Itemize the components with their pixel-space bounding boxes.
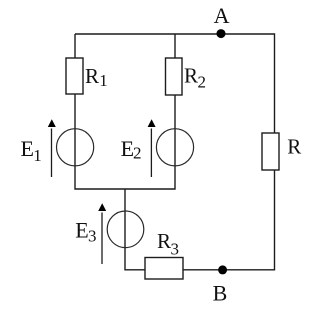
svg-text:R: R (287, 135, 301, 159)
svg-text:E: E (75, 218, 88, 243)
svg-text:3: 3 (88, 227, 97, 246)
svg-text:B: B (213, 280, 228, 305)
svg-text:3: 3 (171, 240, 180, 259)
svg-text:E: E (21, 136, 34, 161)
svg-text:2: 2 (198, 73, 207, 92)
svg-text:1: 1 (99, 71, 108, 90)
svg-text:A: A (214, 3, 230, 28)
svg-text:1: 1 (33, 146, 42, 165)
svg-text:R: R (85, 64, 99, 88)
svg-text:R: R (157, 229, 171, 253)
svg-text:R: R (184, 64, 198, 88)
svg-text:2: 2 (133, 144, 142, 163)
